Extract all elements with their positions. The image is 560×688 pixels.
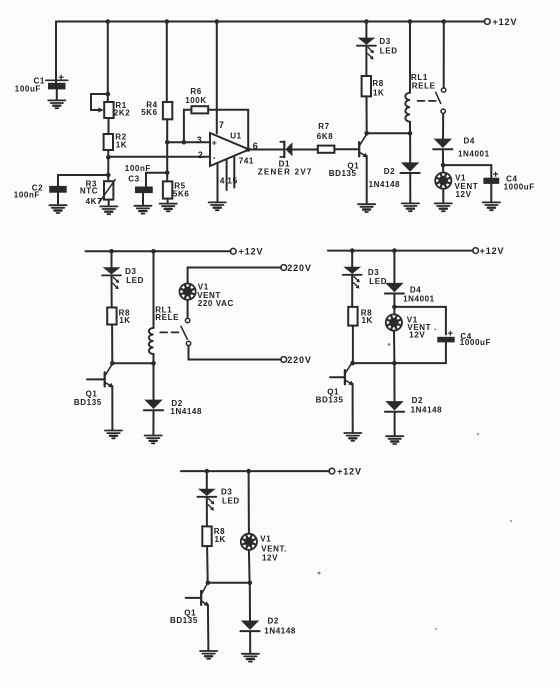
wire node to V1 (top) (442, 165, 444, 172)
resistor R8 1K (mid-left) (107, 308, 116, 325)
motor V1 VENT 12V (bottom) (241, 534, 257, 550)
wire rail to D4 (mid-right) (393, 251, 395, 283)
wire rail to R1 (107, 22, 109, 103)
wire Q1 emitter to ground (mid-right) (352, 384, 354, 433)
junction pin3 net (165, 140, 170, 145)
svg-text:1000uF: 1000uF (504, 183, 535, 192)
svg-text:LED: LED (380, 47, 398, 56)
svg-text:R7: R7 (318, 122, 329, 131)
junction op-amp output node (246, 147, 251, 152)
svg-text:1000uF: 1000uF (460, 338, 491, 347)
relay actuator dashed link (top) (418, 100, 436, 102)
wire C2 to ground (57, 193, 59, 205)
capacitor C2 (49, 186, 66, 193)
relay contact bottom circle (top) (441, 109, 445, 113)
wire node to C4 top (mid-right) (394, 307, 446, 335)
junction D4/C4 node (mid-right) (392, 305, 397, 310)
wire pin 5 stub (233, 156, 235, 188)
wire V1 to 220V top terminal (188, 268, 281, 284)
wire D1 to R7 (292, 149, 317, 151)
wire R5 to ground (167, 199, 169, 204)
motor V1 VENT 220VAC (180, 284, 196, 300)
svg-text:1N4148: 1N4148 (369, 180, 401, 189)
wire R8 to collector node (mid-right) (352, 326, 354, 364)
junction rail/pin7 (215, 19, 220, 24)
svg-text:RELE: RELE (155, 313, 179, 322)
svg-text:D3: D3 (125, 267, 136, 276)
ground (Q1 mid-right) (344, 433, 361, 441)
svg-text:V1: V1 (260, 534, 271, 543)
wire +12V rail (bottom) (181, 470, 329, 472)
junction V1/D2 node (bottom) (248, 580, 253, 585)
svg-text:220V: 220V (287, 355, 312, 365)
wire node to D2 (mid-right) (393, 363, 395, 401)
wire output to D1 (249, 149, 285, 151)
svg-text:12V: 12V (409, 331, 425, 340)
resistor R3 NTC thermistor (104, 181, 113, 199)
arrow R1 wiper (98, 107, 103, 112)
ground (C2) (49, 205, 66, 213)
svg-text:BD135: BD135 (170, 616, 198, 625)
junction rail/relay coil (mid-left) (151, 249, 156, 254)
resistor R4 5K6 (163, 102, 172, 119)
junction C2/R3 node (106, 173, 111, 178)
transistor Q1 BD135 (top) (359, 134, 367, 158)
resistor R8 1K (top) (362, 76, 371, 96)
wire +12V rail (mid-left) (86, 250, 231, 252)
transistor Q1 BD135 (mid-left) (105, 364, 113, 388)
svg-text:1N4148: 1N4148 (411, 405, 443, 414)
svg-text:C3: C3 (128, 175, 139, 184)
junction C3 node (165, 171, 170, 176)
terminal +12V (bottom) (329, 468, 335, 474)
svg-text:4K7: 4K7 (86, 197, 102, 206)
wire C4 to ground (top) (490, 184, 492, 202)
svg-text:D2: D2 (412, 396, 423, 405)
junction relay/D2 node (top) (408, 131, 413, 136)
wire R1 to R2 (108, 118, 110, 134)
wire collector to relay node (mid-left) (112, 362, 153, 364)
wire rail to C1 (55, 22, 57, 83)
wire Q1 base stub (mid-left) (87, 378, 104, 380)
svg-text:D2: D2 (268, 617, 279, 626)
motor V1 VENT 12V (top) (435, 173, 451, 189)
svg-text:+: + (212, 137, 217, 147)
wire Q1 emitter to ground (top) (366, 156, 368, 204)
wire node to V1 (mid-right) (393, 307, 395, 315)
ground (Q1 mid-left) (105, 431, 122, 439)
wire D2 to ground (mid-left) (152, 411, 154, 436)
resistor R8 1K (mid-right) (348, 307, 357, 326)
wire rail to relay coil (top) (409, 22, 411, 93)
svg-text:LED: LED (222, 497, 240, 506)
wire Q1 base stub (bottom) (186, 597, 201, 599)
ground (V1 top) (435, 203, 452, 211)
svg-text:4: 4 (220, 176, 225, 186)
svg-text:D3: D3 (379, 37, 390, 46)
svg-text:D3: D3 (221, 488, 232, 497)
wire collector to node (mid-right) (353, 362, 395, 364)
relay contact top circle (top) (441, 88, 445, 92)
ground (op-amp pin 4) (209, 202, 226, 210)
wire R4 to R5 (166, 119, 168, 181)
ground (D2 bottom) (242, 654, 259, 662)
stroke R3 NTC diagonal (99, 180, 115, 203)
speck (435, 628, 437, 630)
wire D2 to ground (bottom) (249, 632, 251, 654)
svg-text:NTC: NTC (80, 186, 98, 195)
wire R8 to collector node (top) (366, 96, 368, 133)
wire D2 to ground (top) (409, 174, 411, 204)
wire rail to D3 (bottom) (206, 471, 208, 489)
ground (D2 mid-left) (145, 436, 162, 444)
ground (D2 top) (402, 203, 419, 211)
ground (C3) (134, 206, 151, 214)
wire rail to D3 (top) (365, 22, 367, 38)
wire collector to node (bottom) (208, 582, 250, 584)
capacitor C1 (46, 75, 68, 89)
svg-text:741: 741 (239, 156, 254, 165)
svg-text:12V: 12V (456, 190, 472, 199)
wire pin 1 stub (226, 159, 228, 190)
svg-text:1N4001: 1N4001 (403, 294, 435, 303)
resistor R7 6K8 (318, 146, 335, 153)
svg-text:VENT.: VENT. (261, 544, 287, 553)
wire contact to D4 (top) (442, 113, 444, 138)
svg-text:1K: 1K (373, 88, 384, 97)
ground (R3) (100, 206, 117, 214)
wire D3 to R8 (bottom) (206, 497, 208, 527)
diode D4 1N4001 (top) (433, 139, 452, 150)
junction rail/D3 branch (top) (364, 19, 369, 24)
wire R6 right leg to output (208, 110, 248, 150)
wire C3 to ground (142, 193, 144, 205)
svg-text:LED: LED (126, 276, 144, 285)
junction V1/C4 node (top) (441, 163, 446, 168)
wire coil to node (top) (409, 122, 411, 134)
wire rail to D3 (mid-left) (111, 251, 113, 267)
junction collector node (mid-right) (350, 361, 355, 366)
wire D3 to R8 (mid-right) (351, 275, 353, 307)
wire node to D2 (mid-left) (153, 363, 155, 399)
svg-text:+12V: +12V (239, 247, 264, 257)
svg-text:2K2: 2K2 (114, 109, 130, 118)
wire rail to relay coil (mid-left) (153, 251, 155, 328)
diode D2 1N4148 (top) (401, 162, 420, 173)
svg-text:5K6: 5K6 (173, 189, 189, 198)
relay coil RL1 (top) (405, 93, 410, 122)
wire R7 to Q1 base (334, 148, 358, 150)
wire rail to contact (top) (443, 22, 445, 88)
wire down to C2 (57, 175, 59, 186)
svg-text:2: 2 (198, 150, 204, 160)
svg-text:220V: 220V (287, 263, 312, 273)
wire V1 to bottom node (mid-right) (393, 331, 395, 364)
ground (C4 top) (483, 202, 500, 210)
relay actuator dashed link (mid-left) (160, 331, 179, 333)
wire rail to R4 (166, 22, 168, 103)
svg-text:RL1: RL1 (411, 73, 428, 82)
LED D3 (mid-right) (343, 267, 362, 289)
junction rail/R1 branch (106, 19, 111, 24)
speck (318, 572, 321, 575)
svg-text:100uF: 100uF (15, 85, 41, 94)
svg-text:100nF: 100nF (125, 164, 151, 173)
wire V1 to ground (top) (442, 189, 444, 204)
ground (R5) (160, 204, 177, 212)
svg-text:5: 5 (233, 176, 238, 186)
wire node to C2 (58, 174, 108, 176)
relay contact blade (mid-left) (181, 326, 187, 339)
capacitor C4 1000uF (mid-right) (437, 331, 454, 342)
wire to op-amp pin 3 (167, 141, 209, 143)
wire R1 wiper loop (91, 94, 108, 110)
svg-text:BD135: BD135 (74, 398, 102, 407)
terminal 220V top (281, 265, 287, 271)
transistor Q1 BD135 (mid-right) (345, 362, 353, 386)
wire R2 to R3 (107, 150, 109, 181)
ground (C1) (48, 100, 65, 108)
wire rail to V1 (bottom) (248, 471, 250, 534)
diode D2 1N4148 (mid-left) (144, 400, 163, 411)
svg-text:100K: 100K (185, 96, 207, 105)
resistor R8 1K (bottom) (202, 526, 211, 546)
junction R1 wiper tap (106, 92, 111, 97)
junction relay/D2 node (mid-left) (151, 361, 156, 366)
junction R2/pin2 net (106, 155, 111, 160)
svg-text:BD135: BD135 (316, 395, 344, 404)
wire R6 left leg (184, 110, 192, 142)
wire down to C3 (145, 173, 147, 187)
wire to op-amp pin 2 (108, 156, 209, 158)
svg-text:RELE: RELE (412, 82, 436, 91)
wire +12V rail (mid-right) (328, 250, 473, 252)
svg-text:12V: 12V (262, 554, 278, 563)
junction collector node (bottom) (206, 580, 211, 585)
wire Q1 emitter to ground (mid-left) (111, 386, 113, 430)
terminal +12V (top circuit) (484, 19, 490, 25)
ground (Q1 bottom) (200, 651, 217, 659)
speck (388, 343, 391, 346)
diode D2 1N4148 (bottom) (240, 621, 259, 632)
svg-text:+12V: +12V (337, 467, 362, 477)
wire +12V rail (top circuit) (56, 21, 485, 23)
wire rail to pin 7 (216, 22, 218, 134)
svg-text:100nF: 100nF (14, 191, 40, 200)
svg-text:D2: D2 (384, 167, 395, 176)
speck (510, 520, 513, 523)
svg-text:-: - (213, 152, 216, 162)
wire D4 to V1 node (mid-right) (393, 294, 395, 307)
wire Q1 base stub (mid-right) (330, 376, 344, 378)
LED D3 (top) (357, 38, 376, 60)
wire D3 to R8 (mid-left) (111, 275, 113, 307)
svg-text:1K: 1K (215, 535, 226, 544)
resistor R5 5K6 (163, 181, 172, 198)
svg-text:+12V: +12V (480, 246, 505, 256)
junction Q1 collector node (top) (364, 131, 369, 136)
junction R6/pin3 wire (182, 140, 187, 145)
LED D3 (bottom) (197, 489, 216, 511)
wire pin 4 to ground (217, 163, 219, 202)
resistor R6 100K (191, 106, 208, 113)
wire node to D2 (bottom) (249, 583, 251, 621)
svg-text:7: 7 (219, 120, 225, 130)
wire C1 to ground (56, 89, 58, 100)
wire Q1 emitter to ground (bottom) (207, 605, 210, 651)
terminal +12V (mid-right) (473, 248, 479, 254)
wire node to C3 (146, 172, 167, 174)
svg-text:R8: R8 (372, 79, 383, 88)
wire V1 to contact (mid-left) (187, 300, 189, 319)
wire V1 to node (bottom) (248, 550, 251, 583)
resistor R1 (potentiometer 2K2) (104, 102, 113, 118)
terminal 220V bottom (281, 357, 287, 363)
terminal +12V (mid-left) (230, 248, 236, 254)
svg-text:U1: U1 (230, 131, 241, 140)
wire node to D2 (top) (409, 133, 411, 162)
capacitor C4 1000uF (top) (483, 172, 499, 184)
svg-text:6K8: 6K8 (317, 132, 333, 141)
transistor Q1 BD135 (bottom) (201, 583, 208, 607)
LED D3 (mid-left) (102, 267, 121, 289)
junction rail/relay contact (top) (442, 19, 447, 24)
wire coil to node (mid-left) (153, 354, 155, 363)
relay coil RL1 (mid-left) (149, 328, 154, 354)
svg-text:1K: 1K (362, 316, 373, 325)
ground (D2 mid-right) (386, 436, 403, 444)
wire D2 to ground (mid-right) (394, 412, 396, 436)
speck (477, 433, 479, 435)
op-amp U1 741 triangle (210, 133, 249, 166)
zener diode D1 (280, 142, 292, 158)
diode D2 1N4148 (mid-right) (385, 401, 404, 412)
wire R8 to collector node (bottom) (206, 546, 209, 583)
junction rail/relay coil (top) (408, 19, 413, 24)
junction rail/V1 (bottom) (246, 469, 251, 474)
svg-text:220 VAC: 220 VAC (198, 299, 234, 308)
wire contact to 220V bottom terminal (189, 346, 282, 360)
relay contact blade (top) (436, 92, 441, 103)
junction rail/R4 branch (165, 19, 170, 24)
svg-text:D4: D4 (464, 137, 475, 146)
wire collector to relay node (top) (367, 132, 410, 134)
wire C4 bottom to node (mid-right) (394, 342, 446, 363)
wire D3 to R8 (top) (365, 46, 367, 76)
relay contact bottom circle (mid-left) (186, 341, 190, 345)
svg-text:D4: D4 (410, 285, 421, 294)
svg-text:1K: 1K (119, 316, 130, 325)
ground (Q1 top) (358, 204, 375, 212)
svg-text:1N4001: 1N4001 (458, 150, 490, 159)
svg-text:3: 3 (197, 135, 203, 145)
svg-text:1N4148: 1N4148 (264, 627, 296, 636)
svg-text:1N4148: 1N4148 (170, 407, 202, 416)
junction rail/D3 (mid-right) (350, 248, 355, 253)
wire rail to D3 (mid-right) (351, 251, 353, 267)
junction rail/D4 (mid-right) (392, 248, 397, 253)
junction rail/D3 (bottom) (205, 469, 210, 474)
wire node to C4 (top) (443, 165, 491, 177)
soft scan filter def (0, 0, 1, 1)
junction collector node (mid-left) (110, 361, 115, 366)
motor V1 VENT 12V (mid-right) (386, 314, 402, 330)
diode D4 1N4001 (mid-right) (385, 283, 404, 294)
relay contact top circle (mid-left) (185, 318, 189, 322)
junction V1/D2 node (mid-right) (392, 361, 397, 366)
svg-text:LED: LED (369, 277, 387, 286)
svg-text:ZENER 2V7: ZENER 2V7 (258, 168, 313, 177)
wire D4 to V1 node (top) (442, 150, 444, 165)
svg-text:BD135: BD135 (329, 169, 357, 178)
wire R8 to collector node (mid-left) (111, 325, 113, 364)
resistor R2 1K (104, 134, 113, 150)
svg-text:+12V: +12V (493, 17, 518, 27)
wire R3 to ground (108, 200, 110, 207)
svg-text:5K6: 5K6 (141, 108, 157, 117)
junction rail/D3 (mid-left) (109, 249, 114, 254)
svg-text:1K: 1K (116, 140, 127, 149)
capacitor C3 (135, 187, 153, 194)
